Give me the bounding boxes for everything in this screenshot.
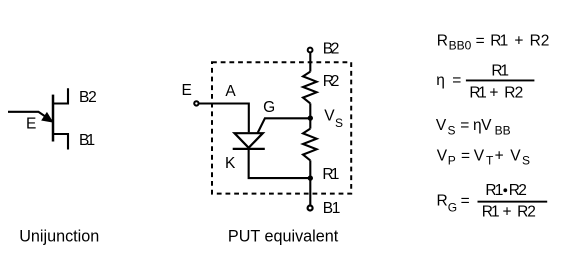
unijunction emitter wire with arrowhead [8,112,52,122]
wire R1 to bottom node [309,160,311,178]
svg-text:R2: R2 [323,73,340,90]
formula RG = R1.R2 / (R1 + R2) [437,182,548,221]
unijunction B2 lead wire [53,88,68,103]
svg-text:R1: R1 [491,62,509,79]
svg-text:A: A [225,83,236,100]
svg-text:B1: B1 [323,200,341,217]
wire VS node to R1 [309,118,311,129]
svg-text:VP=VT+VS: VP=VT+VS [437,147,530,167]
wire bottom node to B1 terminal [309,178,311,205]
wire E terminal to anode [199,104,249,133]
svg-text:K: K [225,155,236,172]
formula eta = R1 / (R1 + R2) [436,62,534,101]
svg-text:η=: η= [436,72,461,89]
svg-text:Unijunction: Unijunction [19,228,99,246]
PUT cathode bar [233,148,265,150]
node VS junction dot [308,115,313,120]
wire B2 terminal to R2 [309,53,311,72]
dashed equivalent-circuit box [212,62,351,193]
svg-text:S: S [335,116,343,130]
terminal B2 (open circle) [308,48,313,53]
svg-text:B1: B1 [79,132,95,149]
unijunction transistor base bar [52,95,55,142]
bottom junction node dot [308,175,313,180]
PUT gate wire to node VS [258,118,311,133]
resistor R2 [303,72,317,104]
svg-text:E: E [182,82,192,99]
svg-text:R1: R1 [322,166,339,183]
wire cathode to bottom node [249,149,311,178]
svg-text:RBB0=R1+R2: RBB0=R1+R2 [437,32,550,52]
svg-text:E: E [26,116,36,133]
resistor R1 [303,129,317,161]
svg-text:VS=ηVBB: VS=ηVBB [436,117,511,138]
svg-text:R1+R2: R1+R2 [482,204,536,221]
svg-text:B2: B2 [323,41,340,58]
svg-text:R1+R2: R1+R2 [469,85,523,102]
svg-text:B2: B2 [79,89,97,106]
terminal B1 (open circle) [308,206,313,211]
terminal E (open circle) [194,101,198,105]
unijunction B1 lead wire [53,134,68,150]
svg-text:RG=: RG= [437,193,470,215]
wire R2 to node VS [309,103,311,118]
PUT anode triangle (diode symbol) [235,133,263,148]
svg-text:V: V [324,108,335,125]
svg-text:G: G [263,99,275,116]
svg-text:PUT equivalent: PUT equivalent [228,228,339,246]
